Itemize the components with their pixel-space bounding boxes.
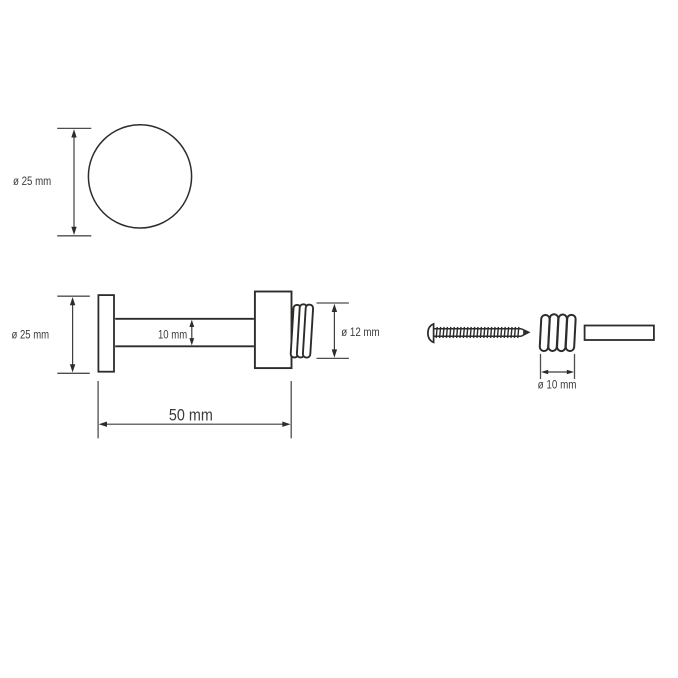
svg-text:ø 10 mm: ø 10 mm [538, 377, 577, 391]
svg-text:10 mm: 10 mm [158, 327, 187, 341]
svg-text:50 mm: 50 mm [169, 406, 213, 425]
svg-text:ø 25 mm: ø 25 mm [12, 327, 50, 341]
svg-text:ø 25 mm: ø 25 mm [13, 174, 51, 188]
svg-text:ø 12 mm: ø 12 mm [341, 325, 379, 339]
